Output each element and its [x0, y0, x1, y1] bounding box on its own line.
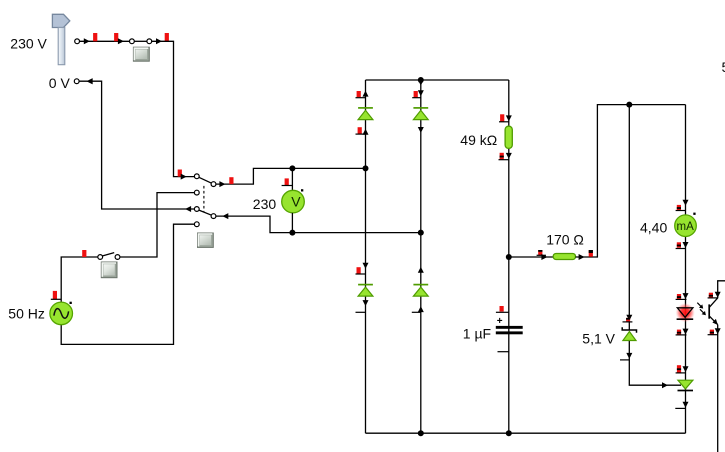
switch S2 contact right: [115, 255, 120, 260]
current arrow: [418, 267, 424, 273]
tick: [676, 248, 686, 250]
wire smoothing leg: [508, 80, 510, 433]
wire top rail: [366, 79, 509, 81]
wire E to bridge input 2: [216, 216, 421, 233]
wire S1 to selector switch: [152, 41, 195, 176]
current indicator: [589, 250, 593, 257]
current indicator: [538, 250, 542, 255]
tick: [620, 359, 629, 361]
current arrow: [683, 366, 689, 372]
current arrow: [418, 306, 424, 312]
current indicator: [53, 291, 57, 299]
source polarity dot: [70, 302, 72, 304]
zener diode Z1 5,1 V: [622, 327, 636, 340]
label 5,1 V: [582, 331, 615, 347]
selector gang link dashed: [203, 186, 205, 212]
current arrow: [683, 402, 689, 408]
tick: [282, 185, 293, 187]
current arrow: [181, 174, 187, 180]
current indicator: [500, 153, 504, 160]
current indicator: [165, 33, 169, 41]
label 230 voltmeter reading: [253, 196, 277, 212]
phototransistor Q1: [709, 298, 718, 325]
current arrow: [506, 115, 512, 121]
diode D4: [413, 285, 428, 297]
selector lever 1: [199, 177, 212, 183]
tick: [51, 298, 61, 300]
current arrow: [87, 78, 93, 84]
current arrow: [626, 315, 632, 321]
current indicator: [178, 170, 182, 177]
tick: [676, 298, 687, 300]
current arrow: [662, 382, 668, 388]
tick: [676, 334, 687, 336]
current indicator: [677, 294, 681, 299]
tick: [708, 297, 718, 299]
junction bottom rail 2: [506, 430, 512, 436]
svg-text:1 µF: 1 µF: [463, 326, 491, 342]
junction bridge input 2: [418, 230, 424, 236]
wire voltmeter top lead: [291, 168, 293, 190]
svg-text:230: 230: [253, 196, 277, 212]
current indicator: [709, 293, 713, 298]
selector throw contact D (0V): [194, 207, 199, 212]
wire F to source negative: [61, 224, 194, 344]
wire collector: [718, 281, 725, 298]
tick: [356, 97, 366, 99]
wire milliammeter branch: [685, 105, 687, 434]
current arrow: [418, 80, 424, 86]
tick: [708, 334, 718, 336]
wire voltmeter bottom lead: [291, 213, 293, 233]
svg-text:V: V: [291, 194, 301, 210]
current arrow: [363, 129, 369, 135]
label 230 V: [10, 36, 47, 52]
current indicator: [500, 114, 504, 121]
tick: [537, 254, 546, 256]
resistor R1 49k: [505, 126, 512, 148]
diode D2: [413, 108, 428, 120]
current arrow: [222, 213, 228, 219]
current indicator: [677, 242, 681, 247]
current arrow: [156, 38, 162, 44]
resistor R2 170 ohm: [553, 254, 575, 260]
junction bridge input 1: [363, 165, 369, 171]
current arrow: [683, 329, 689, 335]
svg-text:5: 5: [722, 59, 725, 75]
LED D6: [677, 308, 694, 319]
svg-text:+: +: [497, 316, 503, 327]
switch S2 contact left: [98, 255, 103, 260]
selector lever 2: [199, 210, 212, 215]
current indicator: [626, 318, 630, 322]
ac source top lead: [61, 257, 98, 302]
switch S1 contact right: [147, 39, 152, 44]
current arrow: [363, 300, 369, 306]
terminal mains live: [75, 39, 80, 44]
current indicator: [414, 91, 418, 97]
voltmeter polarity dot: [301, 189, 303, 191]
tick: [499, 159, 509, 161]
tick: [356, 273, 366, 275]
selector throw contact A: [194, 174, 199, 179]
diode D3: [358, 285, 373, 297]
current arrow: [715, 292, 721, 298]
voltmeter V1: [282, 190, 305, 213]
current indicator: [358, 127, 362, 134]
current arrow: [683, 200, 689, 206]
label 0 V: [49, 75, 71, 91]
selector throw contact F: [194, 222, 199, 227]
tick: [676, 372, 686, 374]
current arrow: [84, 38, 90, 44]
current indicator: [229, 177, 233, 184]
wire bridge right leg: [420, 80, 422, 433]
tick: [675, 407, 685, 409]
push button of S2: [101, 262, 117, 278]
current arrow: [418, 127, 424, 133]
mains supply symbol 230 V: [52, 14, 69, 64]
diode D1: [358, 108, 373, 120]
diode D5: [678, 380, 694, 390]
tick: [499, 121, 509, 123]
wire emitter: [717, 325, 719, 452]
wire tap to R2: [509, 256, 553, 258]
tick: [496, 311, 509, 313]
wire D to 0V terminal: [79, 81, 194, 209]
label partial 5 at edge: [722, 59, 725, 75]
current arrow: [418, 90, 424, 96]
junction top rail: [418, 77, 424, 83]
switch S1 contact left: [130, 39, 135, 44]
svg-text:170 Ω: 170 Ω: [546, 232, 584, 248]
switch S1 lever closed: [134, 40, 147, 42]
svg-text:49 kΩ: 49 kΩ: [460, 132, 497, 148]
current arrow: [118, 38, 124, 44]
selector throw contact C: [194, 190, 199, 195]
terminal mains neutral 0V: [74, 79, 79, 84]
current arrow: [715, 328, 721, 334]
svg-text:4,40: 4,40: [640, 220, 667, 236]
current indicator: [285, 178, 289, 185]
svg-text:50 Hz: 50 Hz: [8, 306, 45, 322]
wire mains to switch S1: [80, 40, 130, 42]
svg-text:5,1 V: 5,1 V: [582, 331, 615, 347]
selector common contact B: [211, 182, 216, 187]
current arrow: [363, 263, 369, 269]
selector common contact E: [211, 214, 216, 219]
svg-text:0 V: 0 V: [49, 75, 71, 91]
wire B to bridge input 1: [216, 168, 366, 184]
light arrows: [697, 303, 706, 316]
push button of S1: [133, 47, 149, 61]
label 1 uF: [463, 326, 491, 342]
junction voltmeter bottom: [289, 230, 295, 236]
current indicator: [93, 33, 97, 41]
tick: [356, 311, 366, 313]
label 4,40 reading: [640, 220, 667, 236]
svg-text:230 V: 230 V: [10, 36, 47, 52]
current indicator: [677, 330, 681, 335]
label 49 kOhm: [460, 132, 497, 148]
wire bottom rail: [366, 432, 686, 434]
wire zener branch: [629, 105, 681, 386]
current arrow: [541, 254, 547, 260]
tick: [623, 321, 633, 323]
LED glow: [676, 303, 695, 322]
push button of selector: [198, 233, 214, 247]
tick: [412, 311, 421, 313]
wire bridge left leg: [365, 80, 367, 433]
switch S2 lever open: [102, 253, 114, 256]
current indicator: [500, 306, 504, 312]
current arrow: [683, 293, 689, 299]
current indicator: [677, 205, 681, 210]
tick: [356, 133, 366, 135]
wire R2 to top node: [576, 105, 686, 257]
current arrow: [683, 242, 689, 248]
ac source 50 Hz: [50, 302, 73, 325]
current indicator: [710, 330, 714, 335]
tick: [498, 351, 509, 353]
capacitor C1 plus sign: [497, 316, 503, 327]
current arrow: [219, 181, 225, 187]
current indicator: [82, 250, 86, 257]
current arrow: [579, 254, 585, 260]
current arrow: [506, 153, 512, 159]
current indicator: [357, 267, 361, 274]
milliammeter polarity dot: [693, 213, 695, 215]
capacitor C1 1uF: [496, 326, 523, 334]
wire C to switch S2: [120, 193, 194, 257]
junction bottom rail 1: [418, 430, 424, 436]
label 50 Hz: [8, 306, 45, 322]
junction 170 ohm tap: [506, 254, 512, 260]
current arrow: [626, 353, 632, 359]
current arrow: [363, 91, 369, 97]
milliammeter M1: [675, 215, 697, 237]
label 170 Ohm: [546, 232, 584, 248]
tick: [412, 97, 421, 99]
current indicator: [677, 365, 681, 372]
current arrow: [185, 206, 191, 212]
svg-text:mA: mA: [677, 221, 695, 233]
current indicator: [114, 33, 118, 41]
junction zener tap: [626, 102, 632, 108]
junction voltmeter top: [289, 165, 295, 171]
tick: [676, 210, 686, 212]
current indicator: [357, 91, 361, 97]
